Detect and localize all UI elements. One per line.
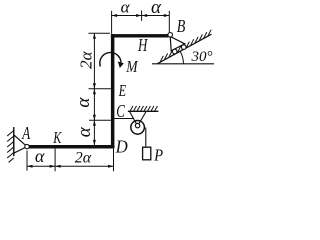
top dimension extension line at B (168, 11, 170, 32)
svg-text:α: α (121, 0, 131, 17)
label a (rotated, span E to C) (73, 97, 94, 108)
horizontal base line at support B (152, 63, 214, 65)
label 2a (bottom K-D span) (75, 150, 92, 167)
pulley axle (135, 123, 139, 127)
pin B (hinge circle at roller support) (168, 33, 173, 38)
pulley wheel (131, 121, 145, 135)
moment M arrowhead (118, 61, 124, 68)
member DH (top horizontal bar) (111, 34, 168, 37)
angle arc 30 degrees (180, 51, 183, 63)
left dimension arrowheads (93, 33, 96, 145)
top dimension arrowheads (112, 14, 170, 17)
bottom dimension arrowheads (27, 165, 114, 168)
svg-text:α: α (35, 146, 45, 166)
left dimension line (93, 33, 95, 145)
rope from C to pulley (114, 118, 134, 120)
roller 1 of support B (172, 49, 177, 54)
weight P box (143, 147, 151, 160)
ceiling line of pulley mount (128, 110, 158, 112)
hatching of ceiling (130, 106, 157, 111)
top dimension middle tick (141, 11, 143, 21)
svg-text:E: E (118, 82, 126, 100)
roller support B bracket triangle (170, 37, 185, 51)
label a (top right span) (151, 0, 162, 18)
svg-text:30°: 30° (191, 49, 213, 65)
svg-text:A: A (21, 124, 30, 144)
label a (top left span) (121, 0, 131, 17)
rope from pulley to weight P (145, 128, 147, 148)
bottom dimension line (27, 165, 114, 167)
label P (153, 146, 163, 164)
label 30 degrees (191, 49, 213, 65)
left dimension top tick (89, 32, 111, 34)
label M (125, 58, 138, 77)
svg-text:α: α (73, 97, 94, 108)
label a (bottom A-K span) (35, 146, 45, 166)
wall of support A (13, 127, 15, 156)
svg-text:2α: 2α (77, 50, 96, 68)
svg-text:H: H (137, 36, 149, 56)
pulley bracket left arm (130, 111, 138, 125)
label A (21, 124, 30, 144)
pin A (hinge circle) (25, 144, 29, 148)
node E tick (89, 88, 111, 90)
roller 2 of support B (181, 45, 186, 50)
member D-to-top vertical bar (111, 34, 115, 148)
top dimension line (112, 15, 170, 17)
inclined surface line (157, 34, 211, 64)
svg-text:K: K (52, 129, 62, 147)
svg-text:α: α (74, 126, 95, 137)
label a (rotated, span C to D) (74, 126, 95, 137)
pulley bracket right arm (138, 111, 146, 125)
svg-text:α: α (151, 0, 162, 18)
svg-text:P: P (153, 146, 163, 164)
svg-text:D: D (115, 137, 128, 157)
label E (118, 82, 126, 100)
hatching of support A wall (7, 131, 14, 163)
svg-text:M: M (125, 58, 138, 77)
node K tick (54, 149, 56, 172)
label K (52, 129, 62, 147)
moment M arc (100, 52, 121, 66)
label H (137, 36, 149, 56)
label D (115, 137, 128, 157)
node C tick (89, 119, 111, 121)
svg-text:B: B (177, 18, 186, 37)
bottom dimension extension at A (26, 151, 28, 171)
bottom dimension extension at D (113, 149, 115, 172)
member AD (bottom horizontal bar) (28, 145, 114, 149)
label 2a (rotated, span top to E) (77, 50, 96, 68)
hatching of inclined surface (160, 30, 211, 62)
svg-text:2α: 2α (75, 150, 92, 167)
label B (177, 18, 186, 37)
top dimension extension line at corner (111, 11, 113, 34)
label C (116, 102, 125, 122)
triangle bracket of pin support A (14, 135, 27, 153)
